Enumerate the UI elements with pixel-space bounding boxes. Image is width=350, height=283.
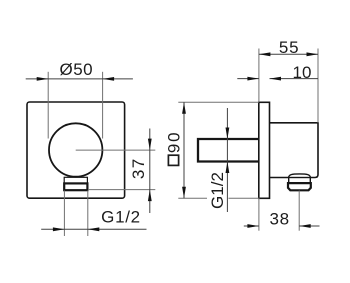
svg-text:Ø50: Ø50 (59, 60, 93, 79)
dimension G1/2 side: bottom arrow (points up) (226, 162, 230, 174)
dimension 55: extension lines (258, 49, 260, 103)
dimension G1/2 front: left arrow (53, 227, 65, 231)
front view: fitting lower band (bold) (64, 183, 87, 190)
dimension square90: bottom arrow (points down) (182, 187, 186, 199)
dimension square90: dimension line (183, 102, 185, 198)
dimension 55: right arrow (points right) (307, 52, 319, 56)
dimension Ø50: extension lines (47, 72, 49, 139)
dimension G1/2 side: dimension line (226, 108, 228, 212)
svg-text:G1/2: G1/2 (208, 172, 227, 209)
dimension 38: right arrow (points left) (299, 224, 311, 228)
dimension 10: right arrow (points left) (270, 77, 282, 81)
dimension square90: top extension line (178, 101, 259, 103)
front view: square wall plate (27, 102, 125, 198)
dimension 38: left extension line (258, 198, 260, 230)
dimension 37: extension line from circle centre (76, 149, 156, 151)
dimension square90: square symbol (168, 155, 178, 165)
svg-text:10: 10 (293, 63, 312, 82)
dimension 10: left arrow (points right) (247, 77, 259, 81)
dimension 37: top arrow (points down) (148, 139, 152, 151)
dimension 10: dimension line left tail (237, 78, 259, 80)
side view: outlet body (270, 123, 319, 178)
dimension Ø50: dimension line (26, 78, 133, 80)
dimension G1/2 front: extension lines (63, 191, 65, 237)
side view: outlet dome (289, 174, 311, 178)
dimension G1/2 side: top arrow (points down) (226, 128, 230, 140)
dimension Ø50: right arrow (103, 77, 115, 81)
side view: outlet upper band (289, 178, 311, 184)
dimension square90: bottom extension line (gap at G1/2 text) (178, 197, 207, 199)
front view: fitting upper band (64, 177, 87, 183)
dimension G1/2 front: dimension line (41, 228, 146, 230)
dimension 38: outlet centre line (298, 191, 300, 231)
svg-text:90: 90 (164, 131, 183, 154)
front view: round outlet body (49, 123, 102, 176)
svg-text:38: 38 (270, 210, 290, 229)
dimension Ø50: left arrow (37, 77, 49, 81)
dimension 55: dimension line (259, 53, 318, 55)
side view: outlet lower band (bold) (288, 183, 311, 190)
side view: supply pipe (bold) (198, 139, 259, 162)
dimension 37: dimension line (149, 129, 151, 214)
svg-text:55: 55 (279, 38, 300, 57)
dimension 38: left arrow (points right) (247, 224, 259, 228)
svg-text:G1/2: G1/2 (101, 208, 141, 227)
side view: wall plate (259, 102, 270, 198)
dimension 55: left arrow (points left) (259, 52, 271, 56)
svg-text:37: 37 (129, 157, 148, 179)
dimension square90: top arrow (points up) (182, 102, 186, 114)
dimension 38: dimension line left tail (244, 225, 259, 227)
dimension 37: bottom arrow (points up) (148, 190, 152, 202)
dimension G1/2 front: right arrow (88, 227, 100, 231)
dimension 10: dimension line right part (270, 78, 319, 80)
dimension 37: extension line at fitting bottom (88, 189, 155, 191)
dimension 38: dimension line right part (299, 225, 319, 227)
